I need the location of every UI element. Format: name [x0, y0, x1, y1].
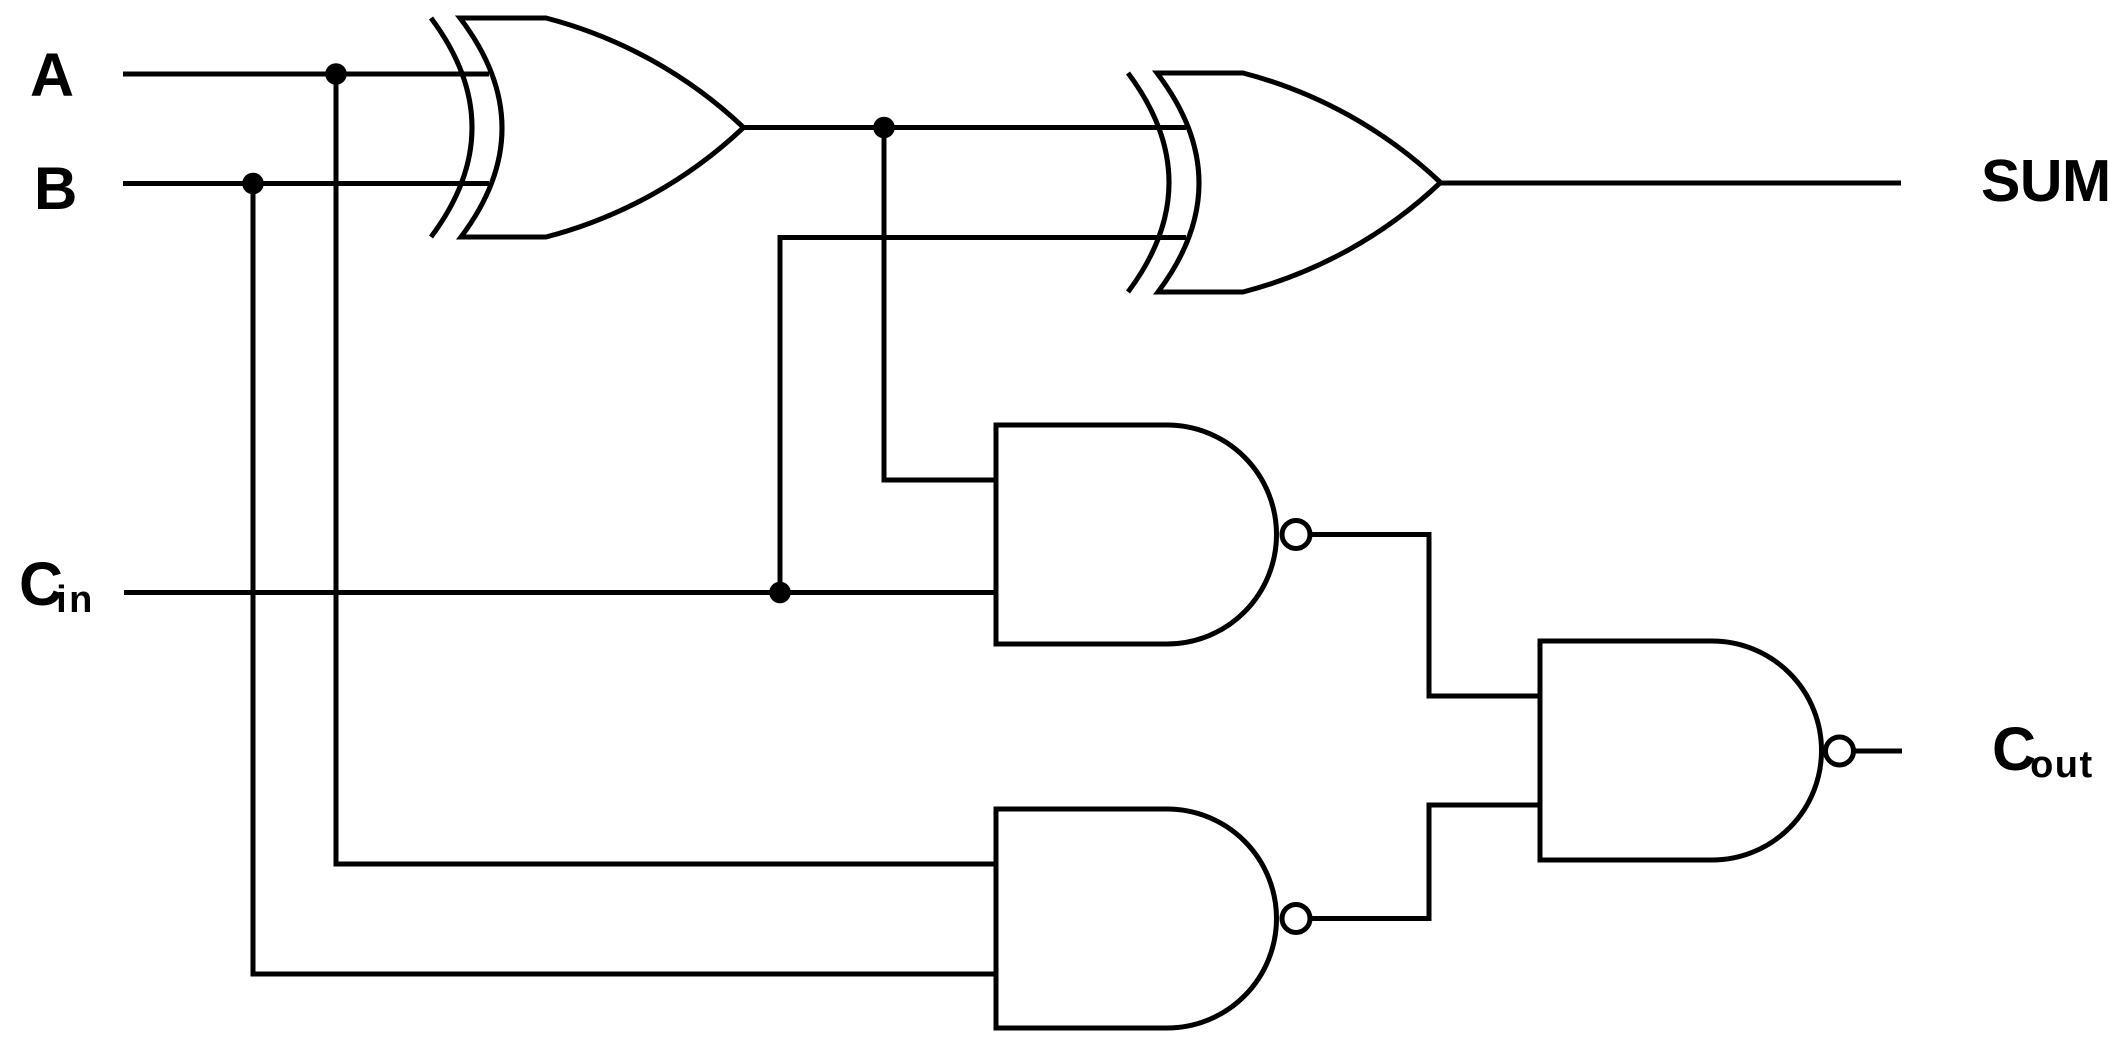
svg-text:B: B: [34, 155, 77, 222]
wire B input: [123, 181, 489, 186]
nand U4 bubble: [1282, 905, 1310, 933]
svg-text:A: A: [30, 41, 74, 109]
wire NAND1 output to NAND3 upper input: [1312, 535, 1542, 697]
wire SUM output: [1441, 181, 1901, 186]
svg-text:SUM: SUM: [1981, 148, 2111, 214]
nand gate U4 (bottom): [996, 809, 1276, 1028]
wire Cout output: [1855, 749, 1902, 754]
svg-text:Cin: Cin: [19, 550, 95, 621]
wire XOR1 output to XOR2 upper input: [744, 125, 1186, 130]
wire NAND2 output to NAND3 lower input: [1312, 805, 1542, 919]
nand U5 bubble: [1826, 737, 1854, 765]
nand gate U3 (upper middle): [996, 425, 1276, 644]
wire A branch vertical down to NAND2 upper input: [336, 74, 996, 864]
xor gate U1 (A XOR B): [431, 18, 744, 237]
wire Cin branch up to XOR2 lower input: [780, 238, 1186, 593]
nand gate U5 (produces Cout): [1540, 641, 1822, 860]
nand U3 bubble: [1282, 521, 1310, 549]
node B junction dot: [242, 173, 264, 195]
svg-text:Cout: Cout: [1992, 715, 2094, 786]
node Cin junction dot: [769, 582, 791, 604]
node A junction dot: [325, 63, 347, 85]
wire XOR1-output branch down to NAND1 upper input: [884, 128, 996, 481]
wire A input: [123, 72, 489, 77]
xor gate U2 (produces SUM): [1128, 73, 1441, 292]
wire B branch vertical down to NAND2 lower input: [253, 184, 996, 975]
node XOR1 output junction dot: [873, 117, 895, 139]
wire Cin input: [124, 590, 996, 595]
